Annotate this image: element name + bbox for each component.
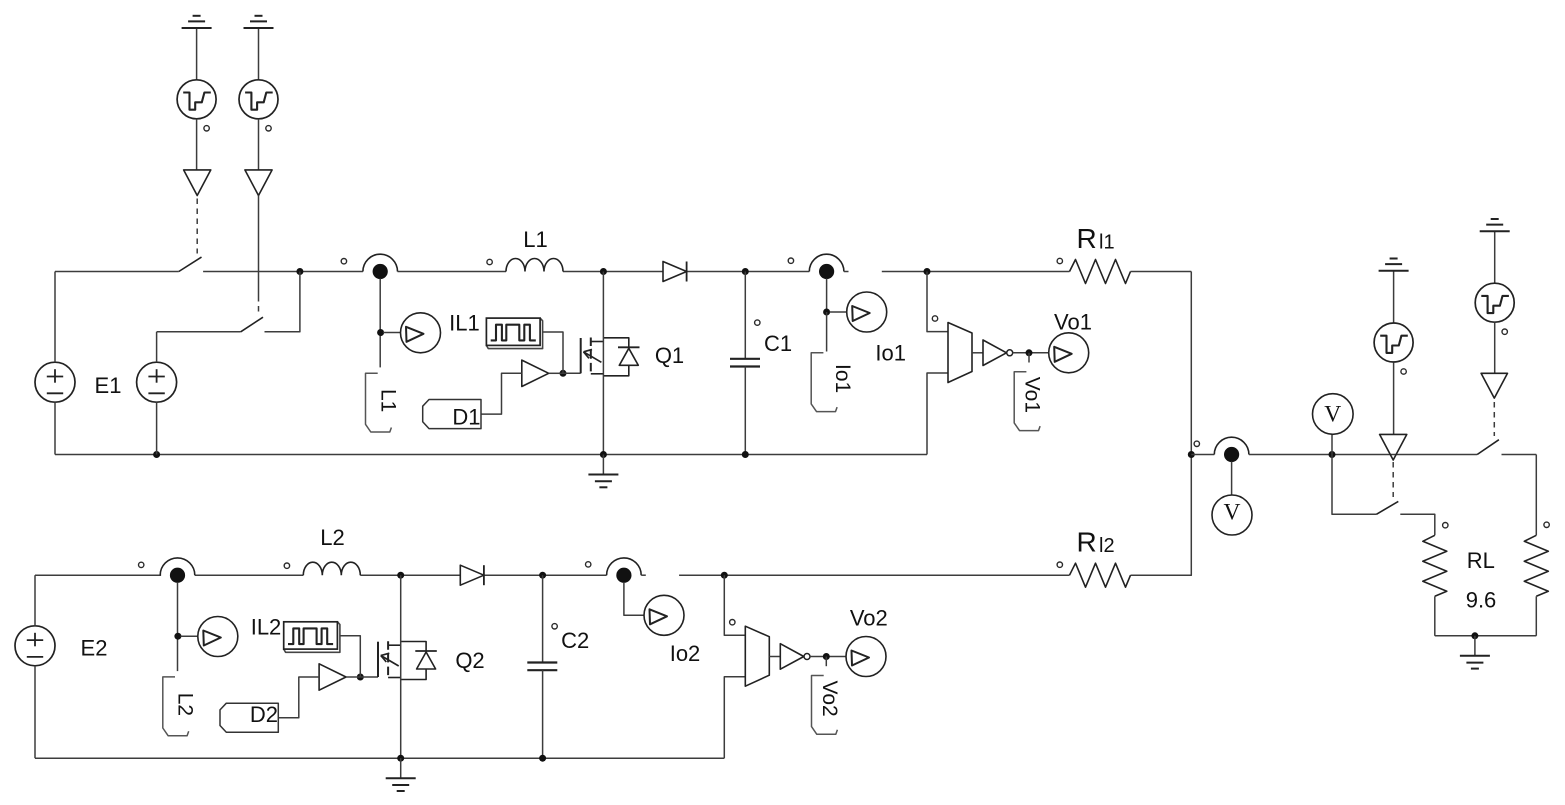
svg-text:E1: E1 [95, 373, 122, 398]
svg-text:L1: L1 [523, 227, 547, 252]
svg-text:l2: l2 [1099, 535, 1115, 557]
svg-text:C2: C2 [561, 628, 589, 653]
svg-text:Io1: Io1 [831, 364, 854, 393]
svg-text:R: R [1077, 223, 1097, 254]
svg-text:RL: RL [1467, 548, 1495, 573]
svg-text:V: V [1224, 500, 1241, 526]
svg-text:Q1: Q1 [655, 343, 684, 368]
svg-text:Io2: Io2 [670, 641, 701, 666]
svg-text:R: R [1077, 527, 1097, 558]
svg-text:Vo1: Vo1 [1054, 310, 1092, 335]
svg-text:Q2: Q2 [455, 648, 484, 673]
svg-text:Io1: Io1 [875, 340, 906, 365]
svg-text:D1: D1 [452, 404, 480, 429]
svg-text:L2: L2 [320, 525, 344, 550]
svg-text:IL2: IL2 [251, 615, 282, 640]
svg-text:Vo1: Vo1 [1021, 377, 1044, 413]
svg-text:E2: E2 [81, 636, 108, 661]
svg-text:l1: l1 [1099, 232, 1115, 254]
svg-text:9.6: 9.6 [1466, 587, 1497, 612]
svg-text:IL1: IL1 [449, 311, 480, 336]
svg-text:L1: L1 [376, 389, 399, 412]
svg-text:V: V [1324, 402, 1341, 428]
svg-text:D2: D2 [250, 702, 278, 727]
svg-text:Vo2: Vo2 [850, 606, 888, 631]
svg-text:L2: L2 [174, 693, 197, 716]
svg-text:C1: C1 [764, 331, 792, 356]
svg-text:Vo2: Vo2 [818, 681, 841, 717]
